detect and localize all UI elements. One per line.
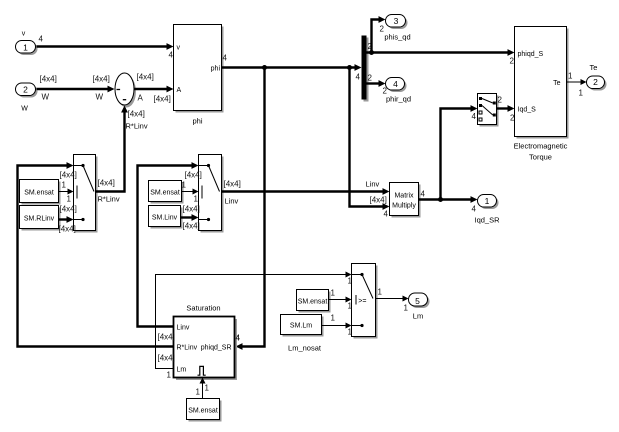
svg-text:[4x4]: [4x4] xyxy=(128,110,145,119)
svg-text:SM.RLinv: SM.RLinv xyxy=(24,216,55,223)
block phi xyxy=(174,25,228,126)
wire Lm feedback: Saturation Lm out to Lm_nosat switch in1 xyxy=(156,272,353,369)
svg-text:[4x4]: [4x4] xyxy=(137,73,154,82)
svg-text:[4x4]: [4x4] xyxy=(40,75,57,84)
junction on Iqd_SR wire xyxy=(438,197,443,202)
svg-text:Torque: Torque xyxy=(529,153,552,162)
wire SM.ensat mid to switch in2 xyxy=(182,181,199,204)
svg-text:1: 1 xyxy=(348,302,353,311)
svg-text:SM.ensat: SM.ensat xyxy=(188,408,218,415)
svg-text:2: 2 xyxy=(593,77,598,87)
svg-text:1: 1 xyxy=(348,328,353,337)
svg-text:1: 1 xyxy=(67,195,72,204)
wire switch R*Linv output up to sum xyxy=(96,106,148,204)
svg-text:[4x4]: [4x4] xyxy=(98,179,115,188)
svg-text:Lm: Lm xyxy=(413,312,423,321)
wire Matrix Multiply out to outport 1 xyxy=(419,190,478,214)
wire demux out1 to Electromagnetic Torque phiqd_S xyxy=(367,42,515,66)
wire SM.ensat to switch in2 xyxy=(59,181,74,204)
svg-text:1: 1 xyxy=(205,384,210,393)
svg-text:5: 5 xyxy=(415,296,420,306)
svg-text:1: 1 xyxy=(23,43,28,53)
svg-text:phiqd_SR: phiqd_SR xyxy=(201,345,232,352)
svg-text:[4x4]: [4x4] xyxy=(60,171,77,180)
sum block (subtract) xyxy=(115,73,136,108)
svg-text:4: 4 xyxy=(472,112,477,121)
outport 1 (Iqd_SR) xyxy=(474,195,500,225)
wire SM.Lm to Lm switch in3 xyxy=(322,314,353,337)
svg-text:2: 2 xyxy=(23,85,28,95)
demux xyxy=(354,36,369,102)
svg-text:2: 2 xyxy=(510,57,515,66)
svg-text:Electromagnetic: Electromagnetic xyxy=(514,142,568,151)
svg-text:1: 1 xyxy=(485,196,490,206)
wire selector out to Electromagnetic Torque Iqd_S xyxy=(497,96,516,123)
constant SM.RLinv xyxy=(20,206,61,231)
svg-text:[4x4]: [4x4] xyxy=(60,205,77,214)
svg-text:3: 3 xyxy=(394,16,399,26)
constant SM.Linv xyxy=(149,206,183,229)
junction on phi wire at x=263 xyxy=(262,65,267,70)
svg-text:SM.ensat: SM.ensat xyxy=(150,190,180,197)
svg-text:[4x4]: [4x4] xyxy=(154,95,171,104)
svg-text:4: 4 xyxy=(223,54,228,63)
svg-text:Iqd_SR: Iqd_SR xyxy=(474,216,500,225)
svg-text:4: 4 xyxy=(384,210,389,219)
svg-text:v: v xyxy=(22,31,26,38)
wire demux out2 to outport 4 xyxy=(367,74,388,96)
svg-text:4: 4 xyxy=(472,205,477,214)
svg-text:A: A xyxy=(138,94,144,103)
svg-text:[4x4]: [4x4] xyxy=(158,354,175,363)
svg-text:1: 1 xyxy=(194,195,199,204)
wire branch up to selector xyxy=(441,105,478,199)
constant SM.Lm xyxy=(281,315,324,353)
svg-text:Multiply: Multiply xyxy=(392,203,416,210)
wire Linv feedback: Saturation Linv out to switch in1 xyxy=(138,162,202,326)
svg-text:4: 4 xyxy=(356,73,361,82)
svg-text:Linv: Linv xyxy=(225,197,239,206)
svg-text:Te: Te xyxy=(590,63,598,72)
svg-text:R*Linv: R*Linv xyxy=(98,195,120,204)
svg-text:Linv: Linv xyxy=(177,325,190,332)
svg-text:1: 1 xyxy=(331,314,336,323)
svg-text:[4x4]: [4x4] xyxy=(93,75,110,84)
svg-text:4: 4 xyxy=(393,79,398,89)
svg-text:A: A xyxy=(177,87,182,94)
wire phi down to Saturation phiqd_SR xyxy=(236,68,265,350)
svg-text:[4x4]: [4x4] xyxy=(185,171,202,180)
svg-text:SM.ensat: SM.ensat xyxy=(24,190,54,197)
wire A: sum to phi xyxy=(135,73,174,104)
svg-text:Lm: Lm xyxy=(177,367,187,374)
wire switch Linv output to Matrix Multiply in1 xyxy=(222,180,390,206)
block Matrix Multiply xyxy=(390,183,421,218)
svg-text:phiqd_S: phiqd_S xyxy=(518,51,544,58)
outport 5 (Lm) xyxy=(409,293,430,321)
svg-text:1: 1 xyxy=(167,371,172,380)
wire SM.ensat to Lm switch in2 xyxy=(329,289,353,311)
svg-text:1: 1 xyxy=(196,388,201,397)
constant SM.ensat (left) xyxy=(20,180,61,205)
svg-text:[4x4]: [4x4] xyxy=(158,333,175,342)
svg-text:W: W xyxy=(21,106,28,113)
svg-text:[4x4]: [4x4] xyxy=(370,196,387,205)
svg-text:Lm_nosat: Lm_nosat xyxy=(288,344,322,353)
selector block xyxy=(478,94,499,127)
svg-text:phis_qd: phis_qd xyxy=(384,33,410,42)
enable port glyph xyxy=(198,366,206,375)
svg-text:v: v xyxy=(177,45,181,52)
svg-text:1: 1 xyxy=(331,289,336,298)
svg-text:[4x4]: [4x4] xyxy=(183,205,200,214)
svg-text:phi: phi xyxy=(211,66,221,73)
svg-text:4: 4 xyxy=(169,51,174,60)
wire Lm switch out to outport 5 xyxy=(376,288,409,313)
svg-text:Te: Te xyxy=(553,80,561,87)
constant SM.ensat (Lm area) xyxy=(297,290,331,313)
junction on phi wire at x=349 xyxy=(347,65,352,70)
svg-text:2: 2 xyxy=(498,96,503,105)
wire Te to outport 2 xyxy=(567,72,587,98)
svg-text:[4x4]: [4x4] xyxy=(59,225,76,234)
junction on demux out1 xyxy=(369,50,374,55)
switch Lm_nosat xyxy=(352,264,378,339)
inport 2 (W) xyxy=(16,83,38,113)
svg-text:W: W xyxy=(96,93,104,102)
svg-text:[4x4]: [4x4] xyxy=(224,180,241,189)
svg-text:1: 1 xyxy=(62,181,67,190)
svg-text:Iqd_S: Iqd_S xyxy=(518,107,537,114)
svg-text:phi: phi xyxy=(192,117,202,126)
wire phi output to demux xyxy=(222,64,362,81)
wire R*Linv feedback: Saturation R*Linv out to switch in1 xyxy=(18,162,174,346)
wire v: inport1 to phi xyxy=(37,35,174,60)
svg-text:Saturation: Saturation xyxy=(186,304,220,313)
svg-text:phir_qd: phir_qd xyxy=(386,95,411,104)
block Electromagnetic Torque xyxy=(514,27,569,162)
svg-text:1: 1 xyxy=(404,304,409,313)
wire phi down to Matrix Multiply input 2 xyxy=(350,68,390,219)
wire W: inport2 to sum xyxy=(37,75,115,102)
saturation left port labels xyxy=(158,333,241,380)
svg-text:W: W xyxy=(42,93,50,102)
svg-text:4: 4 xyxy=(236,334,241,343)
svg-text:1: 1 xyxy=(568,72,573,81)
svg-text:R*Linv: R*Linv xyxy=(126,122,148,131)
outport 4 (phir_qd) xyxy=(386,78,412,104)
svg-text:Matrix: Matrix xyxy=(394,193,414,200)
wire SM.Linv to switch in3 xyxy=(181,205,200,231)
svg-text:1: 1 xyxy=(378,288,383,297)
constant SM.ensat (mid) xyxy=(149,181,184,204)
svg-text:1: 1 xyxy=(579,89,584,98)
outport 3 (phis_qd) xyxy=(384,15,410,42)
svg-text:2: 2 xyxy=(368,74,373,83)
wire branch up to outport 3 xyxy=(372,16,386,52)
switch Linv xyxy=(199,155,224,233)
svg-text:Linv: Linv xyxy=(366,180,380,189)
wire SM.ensat bottom to Saturation enable xyxy=(196,378,210,399)
svg-text:1: 1 xyxy=(182,181,187,190)
outport 2 (Te) xyxy=(587,63,607,91)
svg-text:SM.Linv: SM.Linv xyxy=(152,215,178,222)
svg-text:4: 4 xyxy=(421,190,426,199)
svg-text:SM.Lm: SM.Lm xyxy=(290,323,312,330)
inport 1 (v) xyxy=(16,31,38,56)
svg-text:4: 4 xyxy=(39,35,44,44)
block Saturation (flipped) xyxy=(174,304,238,381)
wire SM.RLinv to switch in3 xyxy=(59,205,77,234)
svg-text:SM.ensat: SM.ensat xyxy=(298,299,328,306)
switch R*Linv xyxy=(74,155,98,233)
svg-text:[4x4]: [4x4] xyxy=(183,222,200,231)
svg-text:>=: >= xyxy=(358,298,366,305)
constant SM.ensat (bottom) xyxy=(187,399,222,422)
svg-text:R*Linv: R*Linv xyxy=(177,345,198,352)
